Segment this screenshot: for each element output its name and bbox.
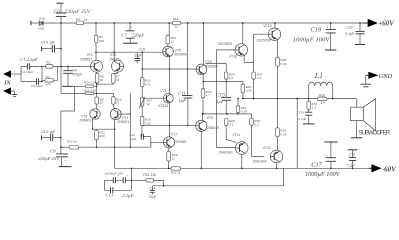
svg-text:1µF: 1µF xyxy=(178,98,186,103)
svg-text:2.2: 2.2 xyxy=(254,122,259,126)
svg-text:-60V: -60V xyxy=(382,165,397,173)
svg-text:0.1µF: 0.1µF xyxy=(345,32,354,36)
svg-text:+: + xyxy=(326,25,328,29)
svg-text:2N5551: 2N5551 xyxy=(80,57,92,61)
svg-text:2N5401: 2N5401 xyxy=(79,118,91,122)
svg-text:C14: C14 xyxy=(149,187,155,191)
svg-text:4.7: 4.7 xyxy=(206,94,211,98)
svg-text:220µF: 220µF xyxy=(132,32,145,37)
svg-text:33: 33 xyxy=(100,78,104,82)
svg-text:C19: C19 xyxy=(310,27,321,34)
svg-text:C7: C7 xyxy=(121,32,127,37)
svg-text:1µF: 1µF xyxy=(216,99,224,104)
svg-text:R24 1.8k: R24 1.8k xyxy=(84,81,97,85)
svg-text:22: 22 xyxy=(100,101,104,105)
svg-text:27k: 27k xyxy=(46,82,51,86)
svg-text:2.2: 2.2 xyxy=(229,122,234,126)
svg-text:2.2: 2.2 xyxy=(257,76,262,80)
svg-text:1k: 1k xyxy=(84,18,88,22)
svg-text:C1 2.2µF: C1 2.2µF xyxy=(20,57,38,62)
svg-text:C9: C9 xyxy=(50,148,56,153)
svg-text:470µF: 470µF xyxy=(73,73,83,77)
svg-text:C18: C18 xyxy=(349,152,355,156)
svg-text:11: 11 xyxy=(172,156,175,160)
svg-text:22µF: 22µF xyxy=(134,53,142,57)
svg-text:VT12: VT12 xyxy=(263,146,271,150)
svg-text:IN: IN xyxy=(3,81,11,87)
svg-text:+: + xyxy=(64,159,66,163)
svg-text:R16: R16 xyxy=(173,17,179,21)
svg-text:VT7: VT7 xyxy=(171,133,177,137)
svg-text:1.9: 1.9 xyxy=(312,106,317,110)
svg-text:33: 33 xyxy=(116,78,120,82)
svg-text:KD9: KD9 xyxy=(38,27,44,31)
svg-text:620: 620 xyxy=(99,134,104,138)
svg-text:0.39: 0.39 xyxy=(280,62,286,66)
svg-text:C8 0.1µF: C8 0.1µF xyxy=(41,130,55,134)
svg-text:4.7k: 4.7k xyxy=(145,82,151,86)
svg-text:C2 10µF: C2 10µF xyxy=(21,70,33,74)
svg-text:R4: R4 xyxy=(76,17,80,21)
svg-text:22: 22 xyxy=(116,101,120,105)
svg-text:0.39: 0.39 xyxy=(280,133,286,137)
svg-text:+: + xyxy=(131,25,133,29)
svg-text:VT10: VT10 xyxy=(229,55,237,59)
svg-text:VT11: VT11 xyxy=(232,133,240,137)
svg-text:1000µF 100V: 1000µF 100V xyxy=(293,36,331,43)
svg-text:+60V: +60V xyxy=(378,20,395,28)
svg-text:R20 11: R20 11 xyxy=(171,171,181,175)
svg-text:VT6: VT6 xyxy=(160,89,166,93)
svg-text:C5 0.1µF: C5 0.1µF xyxy=(41,40,55,44)
svg-text:C3 10µF: C3 10µF xyxy=(31,84,43,88)
svg-text:2SC5200: 2SC5200 xyxy=(257,38,271,42)
svg-text:C16: C16 xyxy=(299,111,305,115)
svg-text:R21 22k: R21 22k xyxy=(143,173,156,177)
svg-text:220µF 25V: 220µF 25V xyxy=(65,9,91,15)
svg-text:C6: C6 xyxy=(54,9,61,15)
svg-text:620: 620 xyxy=(99,39,104,43)
svg-text:C20: C20 xyxy=(346,25,352,29)
svg-text:2.2: 2.2 xyxy=(229,76,234,80)
svg-text:0.39: 0.39 xyxy=(246,89,252,93)
svg-text:1k: 1k xyxy=(147,102,151,106)
svg-text:R32: R32 xyxy=(319,93,325,97)
svg-text:2SC5200: 2SC5200 xyxy=(218,42,232,46)
svg-text:0.1µF: 0.1µF xyxy=(298,117,306,121)
svg-text:3.9: 3.9 xyxy=(320,101,325,105)
svg-text:2N5551: 2N5551 xyxy=(109,57,121,61)
svg-text:R3: R3 xyxy=(46,75,50,79)
svg-text:1.2k: 1.2k xyxy=(145,121,151,125)
svg-text:10µF: 10µF xyxy=(129,137,136,141)
svg-text:C11: C11 xyxy=(178,90,185,95)
svg-text:C13: C13 xyxy=(105,193,113,198)
svg-text:2x100µF 25V: 2x100µF 25V xyxy=(105,172,124,176)
svg-text:R12 1k: R12 1k xyxy=(67,140,77,144)
svg-text:2SD649: 2SD649 xyxy=(174,53,186,57)
svg-text:2SB649: 2SB649 xyxy=(207,126,219,130)
svg-text:SUBWOOFER: SUBWOOFER xyxy=(359,130,391,136)
svg-text:L1: L1 xyxy=(314,71,323,80)
svg-text:VD9: VD9 xyxy=(39,16,45,20)
svg-text:+: + xyxy=(56,17,58,21)
svg-text:GND: GND xyxy=(379,73,393,80)
svg-text:VT13: VT13 xyxy=(263,24,271,28)
svg-text:C15: C15 xyxy=(216,93,225,99)
svg-text:2SD669: 2SD669 xyxy=(174,140,186,144)
svg-text:22µF: 22µF xyxy=(149,195,157,199)
svg-text:1000µF 100V: 1000µF 100V xyxy=(305,171,341,178)
svg-text:220µF 25V: 220µF 25V xyxy=(38,156,60,161)
svg-text:KT815: KT815 xyxy=(158,104,168,108)
svg-text:11: 11 xyxy=(171,40,174,44)
svg-text:0.1µF: 0.1µF xyxy=(347,163,356,167)
svg-text:+: + xyxy=(326,153,328,157)
svg-text:0.39: 0.39 xyxy=(241,109,247,113)
svg-text:C10: C10 xyxy=(139,47,145,51)
svg-text:R1: R1 xyxy=(46,61,50,65)
svg-text:2N5401: 2N5401 xyxy=(117,120,129,124)
svg-text:2.2µF: 2.2µF xyxy=(122,193,133,198)
svg-text:+: + xyxy=(117,173,119,177)
svg-text:C17: C17 xyxy=(311,162,322,169)
svg-text:+: + xyxy=(127,173,129,177)
svg-text:2SA1943: 2SA1943 xyxy=(219,150,233,154)
svg-text:2SA1943: 2SA1943 xyxy=(253,159,267,163)
svg-text:2SD669: 2SD669 xyxy=(205,64,217,68)
svg-text:VT9: VT9 xyxy=(207,116,213,120)
svg-text:11: 11 xyxy=(175,25,178,29)
